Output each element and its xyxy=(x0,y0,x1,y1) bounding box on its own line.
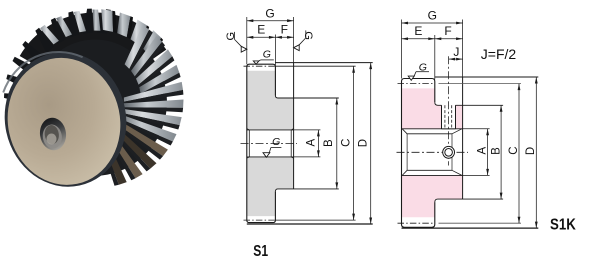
svg-text:S1: S1 xyxy=(253,243,268,260)
S1K dimension C xyxy=(518,84,520,224)
S1K web step lines xyxy=(435,102,442,105)
section drawing S1 xyxy=(225,6,373,260)
S1 rim outline xyxy=(275,62,372,64)
gear bore xyxy=(38,116,68,152)
gear face rim xyxy=(0,41,139,198)
gear right tooth faces xyxy=(125,25,150,69)
S1 finish mark bore xyxy=(263,153,270,158)
S1K dimension D xyxy=(535,77,537,228)
svg-text:E: E xyxy=(414,24,422,38)
S1 dimension B xyxy=(336,98,338,189)
svg-text:G: G xyxy=(265,6,274,20)
S1K rim outline xyxy=(435,76,539,78)
svg-text:A: A xyxy=(477,146,489,154)
svg-text:J=F/2: J=F/2 xyxy=(481,46,517,62)
S1 finish mark right xyxy=(294,45,300,51)
svg-text:F: F xyxy=(444,24,451,38)
S1 dimension A xyxy=(317,130,319,157)
S1K dimension G xyxy=(401,20,403,79)
S1K dimensions E and F xyxy=(434,35,436,80)
gear photo xyxy=(0,9,184,199)
svg-text:C: C xyxy=(340,139,352,147)
svg-text:G: G xyxy=(302,31,314,40)
svg-text:J: J xyxy=(453,45,459,59)
svg-text:F: F xyxy=(281,23,288,37)
S1K dimension B xyxy=(500,105,502,199)
svg-text:B: B xyxy=(323,139,335,147)
gear face disc xyxy=(0,47,132,195)
S1K hub outline xyxy=(402,79,435,228)
gear dark body xyxy=(19,28,167,176)
svg-text:C: C xyxy=(508,146,520,154)
svg-text:E: E xyxy=(257,23,265,37)
svg-text:G: G xyxy=(428,9,437,23)
S1K dimension A xyxy=(487,129,489,176)
S1K pitch lines xyxy=(398,83,435,85)
S1 hub outline xyxy=(247,64,276,222)
S1K bore xyxy=(402,128,463,130)
svg-text:S1K: S1K xyxy=(550,217,576,234)
S1 centerline xyxy=(241,142,298,144)
gear tooth-zone dark band xyxy=(20,13,167,70)
S1 finish mark left xyxy=(241,46,247,52)
S1 dimension G xyxy=(246,17,248,64)
gear top teeth silver flanks xyxy=(40,25,59,45)
S1K dimension J xyxy=(449,58,463,60)
svg-text:D: D xyxy=(525,147,537,155)
svg-text:G: G xyxy=(225,32,237,41)
S1K finish mark top face xyxy=(408,76,414,80)
svg-text:D: D xyxy=(358,139,370,147)
S1 bore xyxy=(247,129,294,131)
S1 dimension D xyxy=(370,63,372,224)
S1 dimensions E and F xyxy=(274,35,276,66)
S1 dimension C xyxy=(353,66,355,220)
svg-text:G: G xyxy=(272,136,280,148)
gear teeth dark silhouette xyxy=(30,146,54,166)
S1 hub section fill xyxy=(247,71,294,130)
S1K centerline xyxy=(397,151,469,153)
svg-text:G: G xyxy=(419,62,427,74)
section drawing S1K xyxy=(397,9,577,234)
S1K hub section fill xyxy=(402,88,463,128)
S1K set screw tap hole xyxy=(442,105,456,129)
S1 web step lines xyxy=(275,96,338,99)
svg-text:G: G xyxy=(263,48,271,60)
svg-text:A: A xyxy=(305,139,317,147)
S1 pitch lines xyxy=(244,65,276,67)
svg-text:B: B xyxy=(491,147,503,155)
S1 finish mark top face xyxy=(253,61,259,64)
